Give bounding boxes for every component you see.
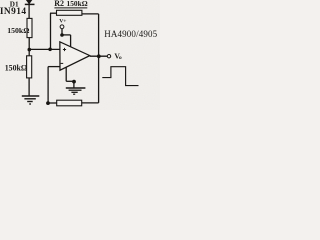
svg-text:150kΩ: 150kΩ <box>5 64 28 73</box>
svg-text:150kΩ: 150kΩ <box>7 26 29 35</box>
svg-text:o: o <box>119 55 122 61</box>
svg-text:IN914: IN914 <box>0 7 27 17</box>
svg-text:R2: R2 <box>54 0 64 8</box>
svg-text:V+: V+ <box>59 19 66 25</box>
svg-text:HA4900/4905: HA4900/4905 <box>104 29 157 39</box>
svg-text:150kΩ: 150kΩ <box>67 0 88 8</box>
